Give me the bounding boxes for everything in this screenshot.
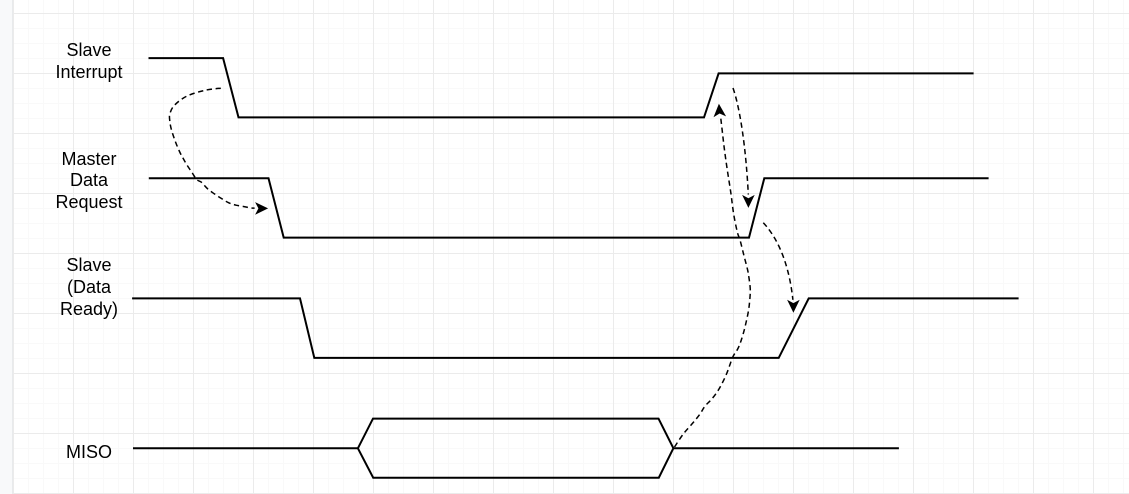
dashed arrow: Master Data Request rise to Slave (Data Ready) rise bbox=[763, 223, 793, 300]
wire: Slave (Data Ready) waveform bbox=[132, 298, 1019, 358]
wire: Master Data Request waveform bbox=[149, 178, 989, 237]
arrowhead at Slave Interrupt rise (pointing up) bbox=[713, 103, 726, 117]
arrowhead at Slave (Data Ready) rise (pointing down) bbox=[787, 300, 800, 313]
left off-canvas strip bbox=[0, 0, 13, 494]
label: Slave Interrupt bbox=[27, 40, 151, 83]
dashed arrow: Slave Interrupt fall to Master Data Request fall bbox=[169, 88, 254, 208]
dashed arrow: MISO valid end to Slave Interrupt rise bbox=[675, 118, 751, 448]
label: MISO bbox=[27, 442, 151, 464]
label: Master Data Request bbox=[27, 149, 151, 214]
dashed arrow: Slave Interrupt rise to Master Data Request rise bbox=[733, 88, 748, 195]
wire: Slave Interrupt waveform bbox=[149, 58, 974, 117]
arrowhead at Master Data Request rise (pointing down) bbox=[742, 195, 755, 208]
wire: MISO bus waveform bbox=[133, 419, 899, 478]
label: Slave (Data Ready) bbox=[27, 255, 151, 320]
arrowhead at Master Data Request fall bbox=[255, 202, 268, 215]
